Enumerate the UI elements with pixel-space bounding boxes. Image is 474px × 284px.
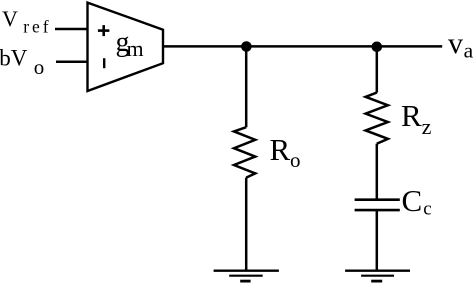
svg-text:o: o [34,55,45,79]
svg-text:bV: bV [0,46,28,71]
capacitor Cc bottom plate [355,209,400,212]
label V_ref [2,6,51,36]
label R_z [401,98,432,139]
wire node1 down to Ro [245,47,248,128]
output wire to node va [163,45,442,48]
resistor Ro zigzag [234,127,255,177]
svg-text:ref: ref [23,16,51,36]
svg-text:R: R [270,132,291,167]
plus input marker [98,25,110,36]
svg-text:o: o [290,148,301,172]
node junction dot 1 [241,41,252,52]
resistor Rz zigzag [366,93,388,144]
wire bVo to op-amp - input [56,60,88,63]
svg-text:R: R [401,98,422,133]
wire Cc down to ground 2 [376,210,379,271]
svg-text:z: z [422,114,432,139]
svg-text:C: C [402,183,423,218]
svg-text:V: V [2,6,18,31]
wire Vref to op-amp + input [55,28,88,31]
wire Ro down to ground 1 [245,178,248,271]
label bV_o [0,46,44,79]
label v_a [448,27,474,63]
svg-text:m: m [127,36,144,61]
minus input marker [103,58,105,68]
svg-text:v: v [448,27,463,60]
node junction dot 2 [372,42,383,53]
wire node2 down to Rz [376,47,379,93]
ground 2 [345,271,410,281]
ground 1 [214,271,279,281]
svg-text:c: c [423,199,431,220]
label R_o [270,132,301,172]
wire Rz down to Cc [376,144,379,200]
svg-text:a: a [464,39,474,63]
label C_c [402,183,432,220]
op-amp U1 (gm transconductance amp body) [88,3,164,91]
capacitor Cc top plate [355,198,400,201]
label gm [116,27,144,61]
